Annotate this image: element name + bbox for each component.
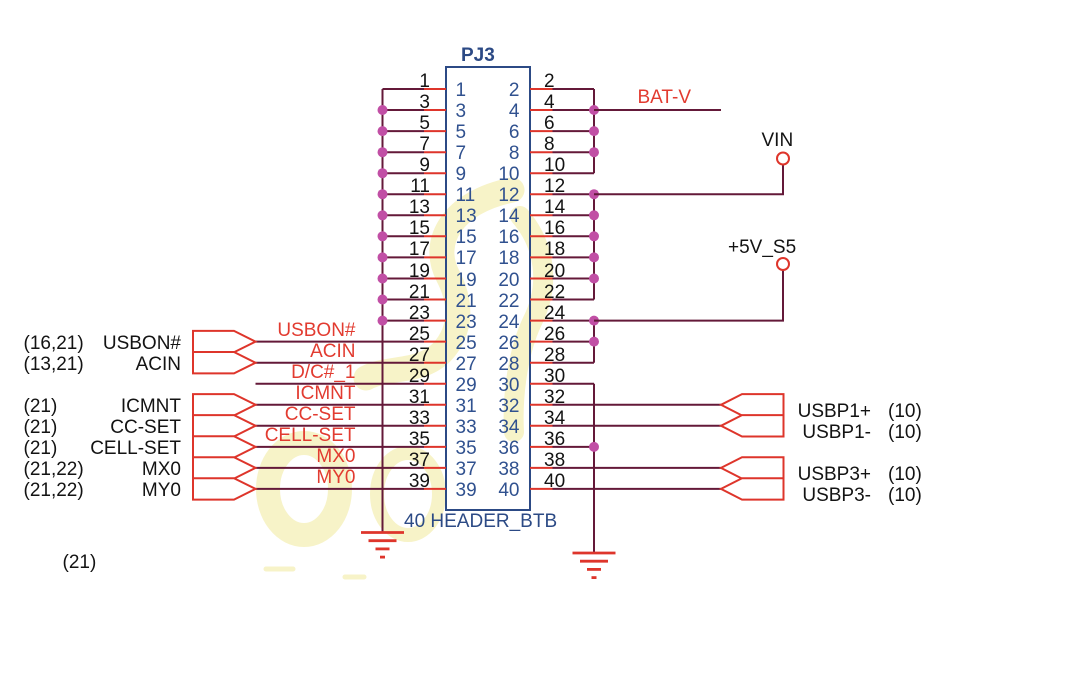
sheet ref (13,21) for ACIN [24,355,84,375]
terminal +5V_S5 [777,258,789,270]
port arrow USBON# [193,331,256,352]
pin 4 stub [530,109,553,111]
port arrow CC-SET [193,415,256,436]
pin 40 number (outside) [544,472,565,492]
pin 33 number (inside) [456,418,477,438]
junction pin 4 [589,105,599,115]
pin 14 number (inside) [498,207,519,227]
sheet ref (21) [63,553,97,573]
pin 3 stub [424,109,446,111]
net label MX0 [316,447,355,467]
signal name ACIN [136,355,181,375]
junction pin 3 [378,105,388,115]
pin 7 stub [424,151,446,153]
pin 12 stub [530,193,553,195]
pin 7 number (outside) [419,135,430,155]
pin 6 number (outside) [544,114,555,134]
signal name MY0 [142,481,181,501]
sheet ref (16,21) for USBON# [24,334,84,354]
pin 19 number (outside) [409,262,430,282]
wire BAT-V net [594,109,721,111]
wire pin 32 USB signal [553,404,722,406]
junction pin 16 [589,231,599,241]
pin 24 number (inside) [498,313,519,333]
pin 5 stub [424,130,446,132]
pin 22 stub [530,299,553,301]
pin 31 number (outside) [409,388,430,408]
wire pin 14 to VIN bus [553,214,595,216]
junction pin 13 [378,210,388,220]
signal name CC-SET [110,418,181,438]
wire pin 21 to left bus [383,299,425,301]
pin 11 number (inside) [456,186,476,206]
pin 36 stub [530,446,553,448]
junction pin 14 [589,210,599,220]
wire pin 30 to GND bus [553,383,595,385]
junction pin 12 [589,189,599,199]
pin 24 stub [530,320,553,322]
port arrow USBP3+ [721,457,784,478]
pin 10 number (outside) [544,156,565,176]
pin 16 stub [530,235,553,237]
junction pin 19 [378,274,388,284]
port arrow MY0 [193,478,256,499]
pin 1 number (outside) [419,72,430,92]
right bus VIN vertical [593,194,595,299]
pin 34 stub [530,425,553,427]
junction pin 18 [589,252,599,262]
signal name USBON# [103,334,181,354]
pin 10 number (inside) [498,165,519,185]
pin 9 stub [424,172,446,174]
wire pin 12 to VIN bus [553,193,595,195]
value 40 HEADER_BTB [404,512,557,532]
wire pin 9 to left bus [383,172,425,174]
wire VIN net [594,165,783,195]
sheet ref (10) for USBP1+ [888,402,922,422]
left GND bus wire [382,89,384,533]
pin 20 number (outside) [544,262,565,282]
signal name CELL-SET [90,439,181,459]
pin 34 number (outside) [544,409,565,429]
net label D/C#_1 [291,363,355,383]
pin 1 number (inside) [456,81,467,101]
pin 12 number (outside) [544,177,565,197]
pin 8 number (inside) [509,144,520,164]
wire pin 8 to BAT-V bus [553,151,595,153]
sheet ref (10) for USBP1- [888,423,922,443]
pin 15 stub [424,235,446,237]
wire pin 3 to left bus [383,109,425,111]
pin 26 number (outside) [544,325,565,345]
right bus BAT-V vertical [593,89,595,173]
pin 5 number (outside) [419,114,430,134]
pin 15 number (inside) [456,228,477,248]
pin 39 number (inside) [456,481,477,501]
pin 13 number (outside) [409,198,430,218]
pin 11 stub [424,193,446,195]
pin 24 number (outside) [544,304,565,324]
pin 29 number (outside) [409,367,430,387]
pin 9 number (inside) [456,165,467,185]
pin 30 number (outside) [544,367,565,387]
wire pin 24 to +5V bus [553,320,595,322]
pin 20 stub [530,278,553,280]
junction pin 21 [378,295,388,305]
signal name USBP1+ [798,402,871,422]
pin 40 stub [530,488,553,490]
signal name ICMNT [121,397,181,417]
pin 28 stub [530,362,553,364]
pin 8 number (outside) [544,135,555,155]
pin 28 number (outside) [544,346,565,366]
junction pin 36 [589,442,599,452]
pin 35 number (inside) [456,439,477,459]
wire pin 6 to BAT-V bus [553,130,595,132]
signal name USBP3- [802,486,871,506]
net label ACIN [310,342,355,362]
sheet ref (10) for USBP3+ [888,465,922,485]
pin 30 number (inside) [498,376,519,396]
pin 38 stub [530,467,553,469]
junction pin 17 [378,252,388,262]
wire pin 16 to VIN bus [553,235,595,237]
port arrow ICMNT [193,394,256,415]
pin 38 number (outside) [544,451,565,471]
pin 23 stub [424,320,446,322]
right GND bus vertical [593,384,595,553]
pin 23 number (outside) [409,304,430,324]
junction pin 20 [589,274,599,284]
pin 39 stub [424,488,446,490]
pin 16 number (inside) [498,228,519,248]
pin 31 stub [424,404,446,406]
pin 20 number (inside) [498,271,519,291]
wire pin 28 to +5V bus [553,362,595,364]
pin 2 number (inside) [509,81,520,101]
net label USBON# [277,321,355,341]
wire pin 27 signal [256,362,425,364]
pin 17 number (outside) [409,240,430,260]
pin 13 stub [424,214,446,216]
pin 25 number (inside) [456,334,477,354]
pin 25 number (outside) [409,325,430,345]
wire pin 31 signal [256,404,425,406]
pin 28 number (inside) [498,355,519,375]
junction pin 24 [589,316,599,326]
pin 26 number (inside) [498,334,519,354]
wire pin 18 to VIN bus [553,256,595,258]
pin 36 number (outside) [544,430,565,450]
wire pin 2 to BAT-V bus [553,88,595,90]
sheet ref (21) for CELL-SET [24,439,58,459]
pin 32 number (outside) [544,388,565,408]
pin 19 stub [424,278,446,280]
signal name USBP3+ [798,465,871,485]
watermark logo [266,190,543,577]
sheet ref (21,22) for MX0 [24,460,84,480]
signal name USBP1- [802,423,871,443]
pin 40 number (inside) [498,481,519,501]
wire pin 25 signal [256,341,425,343]
wire pin 22 to VIN bus [553,299,595,301]
pin 38 number (inside) [498,460,519,480]
junction pin 23 [378,316,388,326]
pin 23 number (inside) [456,313,477,333]
pin 27 number (outside) [409,346,430,366]
pin 17 number (inside) [456,249,477,269]
pin 37 number (inside) [456,460,477,480]
net label ICMNT [295,384,355,404]
signal name MX0 [142,460,181,480]
net label BAT-V [638,88,692,108]
pin 11 number (outside) [410,177,430,197]
junction pin 8 [589,147,599,157]
wire pin 37 signal [256,467,425,469]
pin 8 stub [530,151,553,153]
net label +5V_S5 [728,238,796,258]
net label CELL-SET [265,426,356,446]
pin 22 number (outside) [544,283,565,303]
ground left [361,533,404,558]
wire pin 38 USB signal [553,467,722,469]
wire pin 40 USB signal [553,488,722,490]
right bus +5V_S5 vertical [593,321,595,363]
sheet ref (21,22) for MY0 [24,481,84,501]
pin 13 number (inside) [456,207,477,227]
junction pin 15 [378,231,388,241]
pin 18 number (outside) [544,240,565,260]
wire pin 19 to left bus [383,278,425,280]
pin 33 number (outside) [409,409,430,429]
pin 9 number (outside) [419,156,430,176]
pin 37 stub [424,467,446,469]
wire pin 29 signal [256,383,425,385]
pin 30 stub [530,383,553,385]
pin 4 number (inside) [509,102,520,122]
pin 25 stub [424,341,446,343]
junction pin 5 [378,126,388,136]
port arrow USBP3- [721,478,784,499]
junction pin 26 [589,337,599,347]
pin 14 number (outside) [544,198,565,218]
pin 32 stub [530,404,553,406]
pin 21 number (inside) [456,292,477,312]
wire pin 11 to left bus [383,193,425,195]
wire +5V_S5 net [594,270,783,321]
wire pin 1 to left bus [383,88,425,90]
pin 29 stub [424,383,446,385]
pin 31 number (inside) [456,397,477,417]
pin 19 number (inside) [456,271,477,291]
pin 34 number (inside) [498,418,519,438]
connector PJ3 body (40 HEADER_BTB) [446,67,530,510]
junction pin 7 [378,147,388,157]
wire pin 39 signal [256,488,425,490]
pin 2 stub [530,88,553,90]
terminal VIN [777,153,789,165]
wire pin 20 to VIN bus [553,278,595,280]
wire pin 5 to left bus [383,130,425,132]
pin 21 stub [424,299,446,301]
sheet ref (21) for CC-SET [24,418,58,438]
pin 37 number (outside) [409,451,430,471]
pin 35 number (outside) [409,430,430,450]
net label CC-SET [285,405,356,425]
pin 3 number (outside) [419,93,430,113]
pin 17 stub [424,256,446,258]
pin 18 stub [530,256,553,258]
wire pin 17 to left bus [383,256,425,258]
wire pin 10 to BAT-V bus [553,172,595,174]
wire pin 7 to left bus [383,151,425,153]
ground right [573,553,616,578]
pin 35 stub [424,446,446,448]
wire pin 26 to +5V bus [553,341,595,343]
pin 36 number (inside) [498,439,519,459]
wire pin 13 to left bus [383,214,425,216]
pin 12 number (inside) [498,186,519,206]
port arrow CELL-SET [193,436,256,457]
pin 5 number (inside) [456,123,467,143]
wire pin 36 to GND bus [553,446,595,448]
pin 27 number (inside) [456,355,477,375]
wire pin 4 to BAT-V bus [553,109,595,111]
pin 33 stub [424,425,446,427]
pin 32 number (inside) [498,397,519,417]
pin 2 number (outside) [544,72,555,92]
wire pin 15 to left bus [383,235,425,237]
pin 15 number (outside) [409,219,430,239]
wire pin 35 signal [256,446,425,448]
junction pin 6 [589,126,599,136]
port arrow USBP1+ [721,394,784,415]
wire pin 33 signal [256,425,425,427]
wire pin 23 to left bus [383,320,425,322]
net label MY0 [316,468,355,488]
pin 16 number (outside) [544,219,565,239]
pin 3 number (inside) [456,102,467,122]
pin 6 stub [530,130,553,132]
pin 1 stub [424,88,446,90]
pin 27 stub [424,362,446,364]
sheet ref (21) for ICMNT [24,397,58,417]
junction pin 9 [378,168,388,178]
pin 4 number (outside) [544,93,555,113]
pin 14 stub [530,214,553,216]
pin 29 number (inside) [456,376,477,396]
net label VIN [762,131,794,151]
pin 7 number (inside) [456,144,467,164]
junction pin 11 [378,189,388,199]
pin 10 stub [530,172,553,174]
refdes PJ3 [461,46,495,66]
pin 21 number (outside) [409,283,430,303]
pin 26 stub [530,341,553,343]
pin 18 number (inside) [498,249,519,269]
pin 6 number (inside) [509,123,520,143]
wire pin 34 USB signal [553,425,722,427]
port arrow ACIN [193,352,256,373]
sheet ref (10) for USBP3- [888,486,922,506]
pin 22 number (inside) [498,292,519,312]
port arrow MX0 [193,457,256,478]
port arrow USBP1- [721,415,784,436]
pin 39 number (outside) [409,472,430,492]
